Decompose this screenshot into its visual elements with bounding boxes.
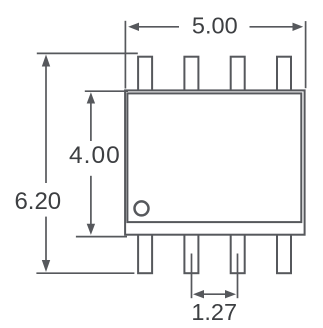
svg-text:1.27: 1.27 [191, 299, 237, 325]
svg-text:6.20: 6.20 [14, 188, 61, 215]
svg-text:5.00: 5.00 [192, 13, 238, 39]
svg-text:4.00: 4.00 [69, 142, 121, 169]
